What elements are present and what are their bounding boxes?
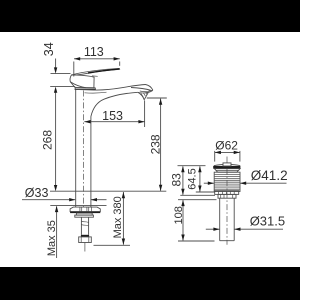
svg-text:108: 108 bbox=[173, 206, 185, 224]
svg-text:34: 34 bbox=[42, 42, 56, 56]
arrow 113 right bbox=[114, 57, 120, 60]
drain locknut lower step bbox=[218, 194, 236, 198]
arrow 83 down bbox=[181, 189, 184, 195]
cartridge cap under handle bbox=[75, 88, 96, 90]
connector inner lines bbox=[81, 237, 89, 243]
dim 113: right extension line bbox=[119, 62, 121, 66]
faucet column right edge bbox=[90, 117, 92, 208]
dim Ø41.2: left leader bbox=[204, 182, 214, 184]
bottom black band bbox=[0, 267, 300, 300]
nut inner ticks bbox=[80, 207, 92, 211]
dim 113: left extension line bbox=[73, 62, 75, 77]
dim Ø33: right leader bbox=[91, 199, 107, 201]
arrow Max380 up bbox=[122, 192, 125, 198]
dim Ø33: left leader bbox=[22, 199, 75, 201]
svg-text:153: 153 bbox=[102, 109, 123, 123]
lower step slots bbox=[221, 194, 233, 198]
blade dark top edge bbox=[88, 69, 119, 73]
faucet column left edge bbox=[75, 89, 77, 207]
washer box 2 bbox=[75, 215, 94, 217]
dim Max35: vertical line bbox=[56, 206, 58, 258]
faucet handle lever (blade outline) bbox=[72, 68, 120, 75]
svg-text:83: 83 bbox=[169, 173, 183, 187]
drain body thread lines bbox=[214, 175, 240, 190]
hose connector bbox=[79, 237, 92, 243]
arrow 64.5 up bbox=[198, 166, 201, 172]
svg-text:Max 380: Max 380 bbox=[112, 196, 124, 238]
dim Ø31.5: right leader bbox=[234, 228, 283, 230]
ext line flange bottom (83/64.5 top) bbox=[178, 165, 206, 167]
svg-text:238: 238 bbox=[149, 134, 163, 154]
top black band bbox=[0, 0, 300, 32]
dim Max380: vertical line bbox=[122, 192, 124, 245]
aerator face chord bbox=[131, 88, 152, 91]
arrow Ø31.5 right-pointing bbox=[213, 228, 219, 231]
dim Ø62: right extension line bbox=[239, 151, 241, 162]
arrow 153 right bbox=[138, 120, 144, 123]
dim 108: top extension line bbox=[178, 199, 217, 201]
under-blade shadow line bbox=[92, 75, 98, 77]
arrow 108 down bbox=[181, 235, 184, 241]
arrow 108 up bbox=[181, 200, 184, 206]
arrow Ø62 right bbox=[234, 151, 240, 154]
drain flange top bbox=[214, 164, 240, 165]
drain tailpipe bbox=[220, 198, 235, 241]
dim 83: vertical line bbox=[182, 166, 184, 194]
drain threaded body bbox=[214, 172, 240, 191]
arrow Ø41.2 right-pointing bbox=[208, 182, 214, 185]
dim 238: vertical line bbox=[160, 99, 162, 191]
svg-text:Ø31.5: Ø31.5 bbox=[250, 214, 285, 229]
arrow 64.5 down bbox=[198, 186, 201, 192]
arrow Ø41.2 left-pointing bbox=[240, 182, 246, 185]
nut dark band bbox=[70, 212, 100, 214]
arrow Ø31.5 left-pointing bbox=[234, 228, 240, 231]
dim 113: dimension line bbox=[74, 58, 120, 60]
svg-text:113: 113 bbox=[84, 45, 104, 59]
drain flange dark band bbox=[213, 166, 240, 169]
svg-text:Ø33: Ø33 bbox=[25, 186, 49, 200]
dim Max380: bottom extension line bbox=[94, 244, 131, 246]
dim 268/34 shared vertical line bbox=[55, 90, 57, 189]
spout top edge bbox=[75, 85, 145, 91]
spout second contour line bbox=[85, 91, 107, 94]
dim Ø31.5: left leader bbox=[206, 228, 220, 230]
cap bottom edge (dark) bbox=[75, 88, 96, 90]
supply hose bbox=[81, 217, 88, 235]
hose break squiggles bbox=[81, 221, 88, 226]
drain locknut flange bbox=[215, 191, 239, 195]
dim 34: extension line top bbox=[51, 73, 71, 75]
dim Ø41.2: right leader bbox=[240, 182, 286, 184]
arrow 34 up (tip y=86.6) bbox=[54, 87, 57, 93]
handle body wedge bbox=[70, 75, 94, 88]
column centerline (dash-dot) bbox=[83, 91, 85, 208]
arrow 83 up bbox=[181, 166, 184, 172]
connector needle bbox=[84, 243, 86, 252]
arrow Ø33 right-pointing bbox=[69, 198, 75, 201]
arrow Ø33 left-pointing bbox=[91, 198, 97, 201]
arrow 268 down (tip at deck y=191.2) bbox=[54, 185, 57, 191]
ext line body bottom (64.5 bottom) bbox=[196, 191, 215, 193]
dim Ø62: dimension line bbox=[215, 151, 240, 153]
drain flange skirt bbox=[214, 169, 240, 173]
dim 153: dimension line bbox=[84, 121, 144, 123]
svg-text:Max 35: Max 35 bbox=[46, 220, 58, 256]
hose ferrule (dark) bbox=[81, 235, 89, 237]
arrow 238 down bbox=[159, 185, 162, 191]
mounting nut trapezoid under deck bbox=[70, 207, 100, 212]
arrow 153 left bbox=[84, 120, 90, 123]
drain centerline (dash-dot) bbox=[226, 157, 228, 245]
svg-text:268: 268 bbox=[41, 130, 55, 150]
dim 34: extension line bottom bbox=[50, 86, 75, 88]
spout underside curve bbox=[91, 92, 138, 116]
dim 153: right extension line bbox=[144, 101, 146, 127]
handle inner contour line bbox=[70, 82, 86, 88]
arrow 238 up bbox=[159, 99, 162, 105]
skirt inner line bbox=[216, 169, 238, 171]
arrow Ø62 left bbox=[215, 151, 221, 154]
svg-text:Ø62: Ø62 bbox=[215, 139, 238, 153]
dim 34: upper leader with down arrow bbox=[55, 59, 57, 72]
dim 64.5: vertical line bbox=[199, 166, 201, 191]
arrow 34 down (tip y=73.6) bbox=[54, 67, 57, 73]
locknut scallop ticks bbox=[219, 191, 235, 195]
aerator hatch ticks bbox=[141, 93, 147, 98]
dim 108: vertical line bbox=[182, 200, 184, 240]
svg-text:Ø41.2: Ø41.2 bbox=[251, 168, 288, 183]
dim Ø62: left extension line bbox=[214, 151, 216, 162]
deck top line bbox=[50, 190, 166, 192]
dim 238: top extension line bbox=[147, 97, 167, 99]
arrow Max35 up (tip deck bottom) bbox=[55, 206, 58, 212]
aerator cone bbox=[138, 92, 148, 99]
arrow 113 left bbox=[74, 57, 80, 60]
pop-up pull tab bbox=[223, 163, 231, 166]
svg-text:64.5: 64.5 bbox=[186, 168, 198, 189]
ext line locknut (83 bottom) bbox=[180, 194, 215, 196]
aerator face arcs bbox=[138, 91, 151, 93]
dim 108: bottom extension line bbox=[178, 240, 215, 242]
spout aerator beak crest bbox=[146, 85, 153, 93]
deck bottom line bbox=[50, 205, 106, 207]
washer box 1 bbox=[76, 213, 92, 215]
arrow Max380 down bbox=[122, 239, 125, 245]
